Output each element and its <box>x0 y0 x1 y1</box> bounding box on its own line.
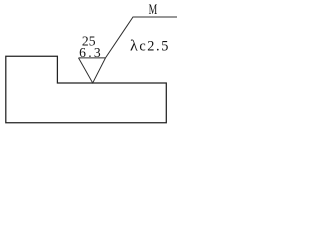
svg-text:M: M <box>149 2 158 18</box>
svg-text:6.3: 6.3 <box>79 45 103 60</box>
svg-text:λc2.5: λc2.5 <box>130 38 170 55</box>
